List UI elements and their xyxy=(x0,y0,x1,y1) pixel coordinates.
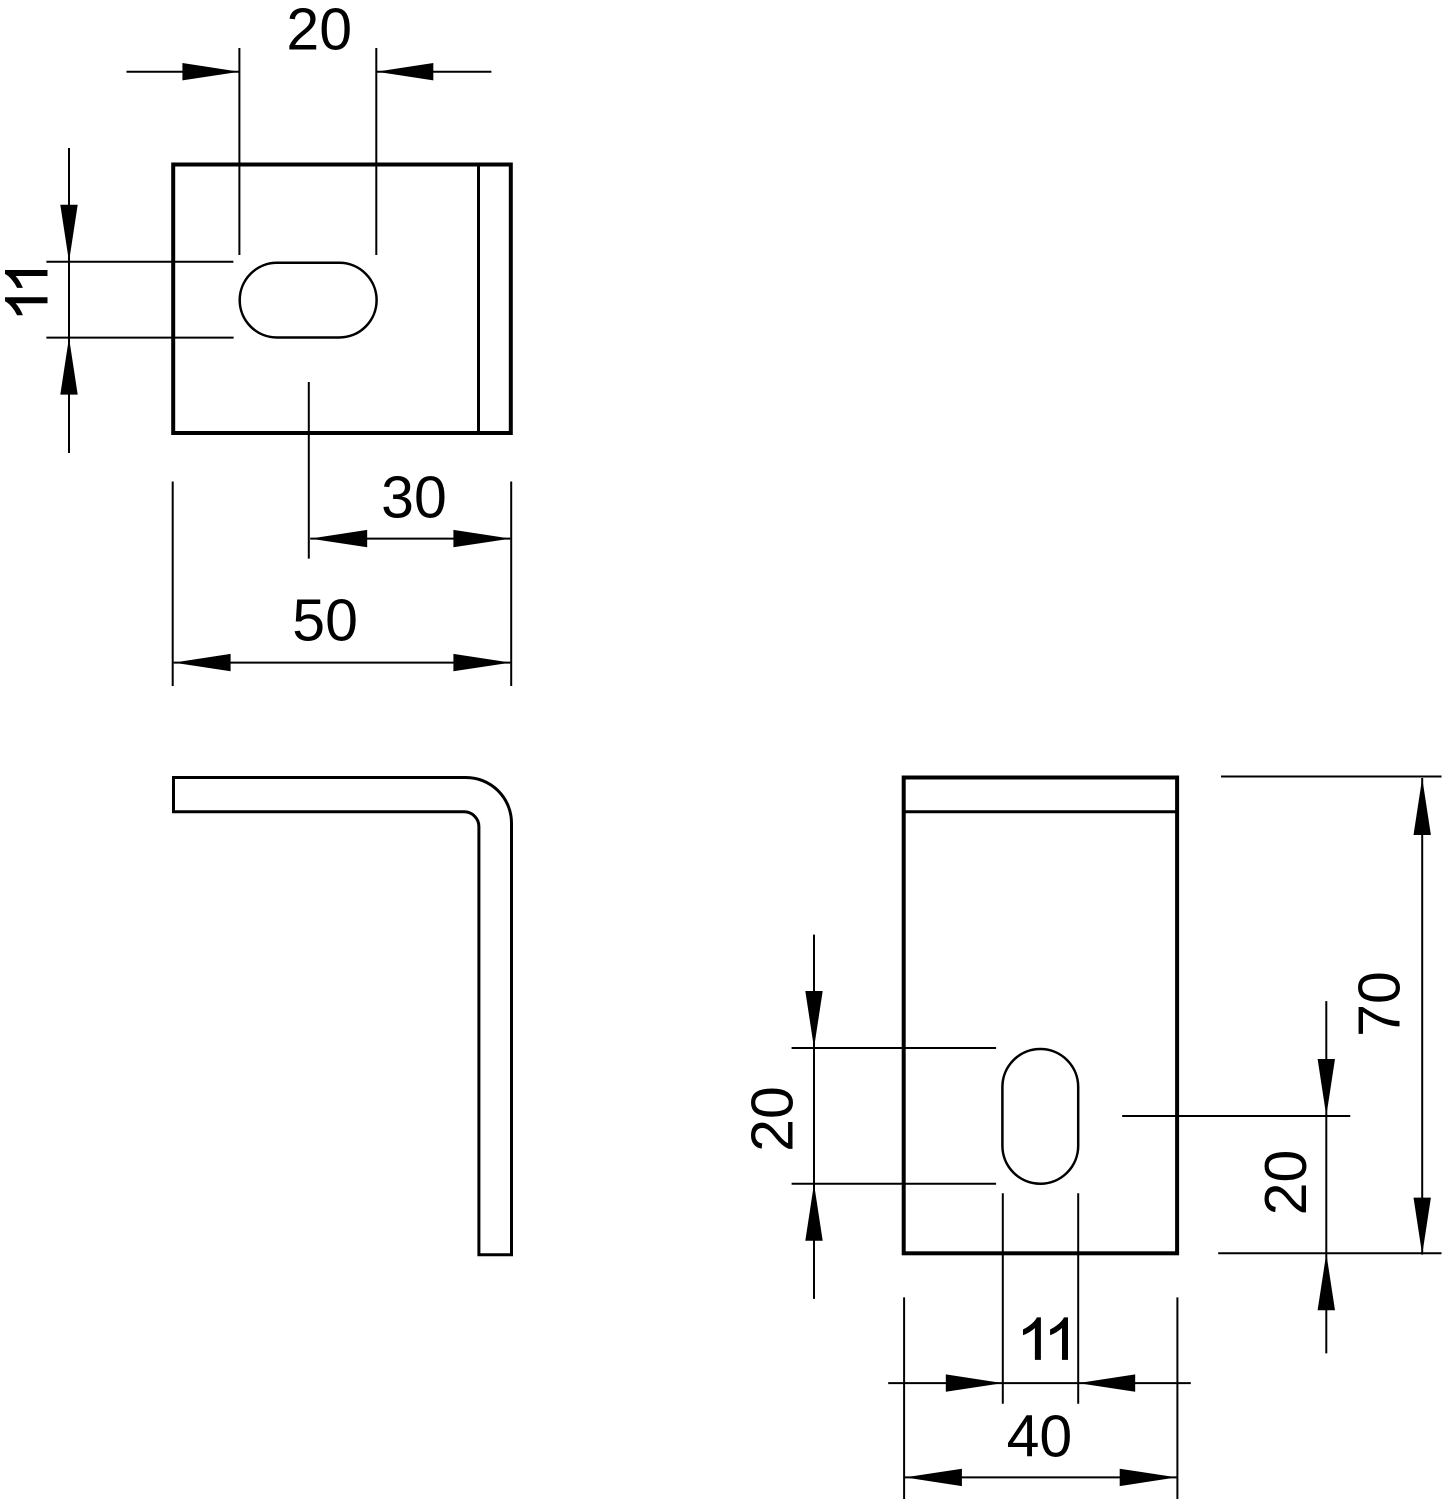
dim 11 arrow bottom xyxy=(60,338,77,395)
dim 50 dimension line xyxy=(174,662,511,664)
dim 11 bottom extension line right (slot right) xyxy=(1077,1193,1079,1404)
svg-text:30: 30 xyxy=(381,465,447,531)
dim 30 dimension line xyxy=(310,538,510,540)
dim 30 arrow right xyxy=(453,530,510,547)
dim 70 dimension line xyxy=(1421,778,1423,1255)
front dim 20 dimension line xyxy=(813,935,815,1299)
dim 40 arrow left xyxy=(905,1469,962,1486)
dim 30 extension line from slot centre xyxy=(308,382,310,559)
dim 50 arrow right xyxy=(453,654,510,671)
dim 30 arrow left xyxy=(310,530,367,547)
front dim 20 extension line bottom (slot bottom) xyxy=(792,1183,997,1185)
dim 11 bottom label xyxy=(1023,1317,1068,1360)
dim 11 extension line top xyxy=(46,261,233,263)
front view bend line xyxy=(904,810,1177,813)
dim 50 extension line left xyxy=(172,482,174,687)
dim 40 dimension line xyxy=(905,1476,1177,1478)
dim 20 dimension line left part xyxy=(127,71,240,73)
svg-text:20: 20 xyxy=(1253,1150,1319,1216)
dim 20 dimension line right part xyxy=(376,71,491,73)
dim 11 dimension line xyxy=(68,148,70,453)
dim 40 extension line right xyxy=(1176,1297,1178,1499)
dim 30/50 extension line right xyxy=(510,482,512,687)
dim 11 bottom extension line left (slot left) xyxy=(1002,1193,1004,1404)
dim 11 extension line bottom xyxy=(46,337,233,339)
top view bend line xyxy=(477,163,480,435)
front dim 20 right arrow top xyxy=(1318,1059,1335,1116)
dim 11 bottom dimension line xyxy=(888,1382,1191,1384)
dim 40 arrow right xyxy=(1120,1469,1177,1486)
svg-text:40: 40 xyxy=(1007,1403,1073,1469)
dim 11 bottom arrow right xyxy=(1078,1374,1135,1391)
front bottom extension line xyxy=(1218,1252,1441,1254)
svg-text:70: 70 xyxy=(1347,971,1413,1037)
dim 70 arrow top xyxy=(1414,778,1431,835)
top view plate outline xyxy=(173,165,511,434)
front slot centre line xyxy=(1122,1115,1350,1117)
dim 11 bottom arrow left xyxy=(946,1374,1003,1391)
svg-text:20: 20 xyxy=(740,1086,806,1152)
dim 11 arrow top xyxy=(60,205,77,262)
dim 11 label xyxy=(5,270,48,315)
dim 70 arrow bottom xyxy=(1414,1198,1431,1255)
dim 40 extension line left xyxy=(903,1297,905,1499)
svg-text:50: 50 xyxy=(292,587,358,653)
front dim 20 extension line top (slot top) xyxy=(792,1047,997,1049)
front dim 20 arrow top xyxy=(805,991,822,1048)
dim 20 extension line right xyxy=(375,48,377,255)
dim 70 extension line top xyxy=(1221,776,1442,778)
front dim 20 right dimension line xyxy=(1325,1001,1327,1353)
svg-text:20: 20 xyxy=(286,0,352,63)
front dim 20 arrow bottom xyxy=(805,1184,822,1241)
top view slot (obround hole) xyxy=(240,263,377,338)
dim 20 arrow left xyxy=(182,63,239,80)
front view plate outline xyxy=(904,778,1177,1254)
front view slot (obround hole) xyxy=(1002,1049,1078,1184)
side view L profile xyxy=(174,778,512,1255)
dim 20 extension line left xyxy=(238,48,240,255)
dim 50 arrow left xyxy=(174,654,231,671)
dim 20 arrow right xyxy=(376,63,433,80)
front dim 20 right arrow bottom xyxy=(1318,1253,1335,1310)
